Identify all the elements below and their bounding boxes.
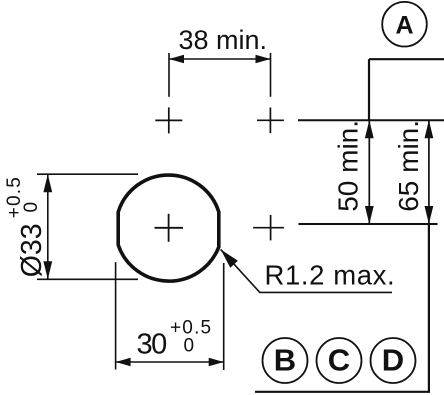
dimension 50 min: dimension line — [368, 120, 370, 224]
dimension O33: bottom extension line — [37, 278, 138, 280]
dimension 38 min: right arrowhead — [256, 55, 271, 63]
dimension 50 min: up arrowhead — [365, 120, 374, 138]
dimension O33: up arrowhead — [43, 174, 52, 192]
dimension 30: dimension line — [116, 361, 224, 363]
dimension 38 min: dimension line — [169, 58, 271, 60]
svg-text:30: 30 — [137, 329, 167, 361]
view label circle A — [382, 2, 427, 47]
leader line R1.2 — [221, 249, 392, 292]
svg-text:D: D — [382, 343, 404, 378]
view label circle D — [371, 338, 416, 383]
dimension 30: right arrowhead — [209, 358, 224, 366]
row reference line at middle cross row — [299, 223, 438, 225]
svg-text:0: 0 — [184, 336, 195, 357]
dimension 30: left extension line — [115, 262, 117, 369]
adjacent unit outline corner top-right: horizontal edge — [369, 58, 444, 60]
svg-text:A: A — [395, 11, 413, 39]
dimension 30: left arrowhead — [116, 358, 131, 366]
svg-text:C: C — [328, 343, 350, 378]
dimension 65 min: up arrowhead — [425, 120, 434, 138]
view label circle C — [317, 338, 362, 383]
svg-text:65 min.: 65 min. — [393, 120, 424, 212]
svg-text:38 min.: 38 min. — [179, 25, 268, 55]
svg-text:R1.2 max.: R1.2 max. — [265, 260, 396, 291]
row reference line at top cross row — [298, 119, 444, 121]
svg-text:0: 0 — [21, 202, 42, 213]
dimension 65 min: dimension line — [428, 120, 430, 224]
center mark cross middle-right — [253, 215, 284, 240]
dimension 38 min: extension line left — [168, 53, 170, 97]
panel cutout hole outline (circle with two flats) — [118, 175, 219, 281]
dimension 38 min: left arrowhead — [169, 55, 184, 63]
svg-text:Ø33: Ø33 — [16, 223, 48, 277]
svg-text:50 min.: 50 min. — [332, 120, 363, 212]
dimension 30: right extension line — [223, 263, 225, 370]
adjacent unit outline bottom-right: horizontal edge — [255, 391, 430, 393]
svg-text:B: B — [274, 343, 296, 378]
dimension O33: dimension line — [47, 174, 49, 279]
center mark cross top-left — [155, 107, 182, 133]
center mark cross of main hole — [155, 214, 184, 242]
leader arrowhead R1.2 — [221, 249, 238, 267]
dimension 38 min: extension line right — [270, 53, 272, 97]
dimension 65 min: down arrowhead — [425, 206, 434, 224]
adjacent unit outline bottom-right: vertical edge — [428, 224, 430, 392]
view label circle B — [263, 338, 308, 383]
dimension 50 min: down arrowhead — [365, 206, 374, 224]
dimension O33: down arrowhead — [43, 261, 52, 279]
dimension O33: top extension line — [37, 173, 138, 175]
center mark cross top-right — [257, 108, 284, 134]
adjacent unit outline corner top-right: vertical edge — [368, 59, 370, 120]
